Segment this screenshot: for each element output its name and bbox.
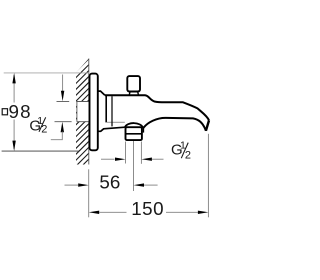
svg-text:150: 150	[131, 198, 164, 219]
svg-text:56: 56	[99, 171, 120, 192]
svg-text:98: 98	[9, 101, 32, 122]
svg-text:2: 2	[185, 149, 191, 161]
svg-text:2: 2	[41, 124, 47, 136]
